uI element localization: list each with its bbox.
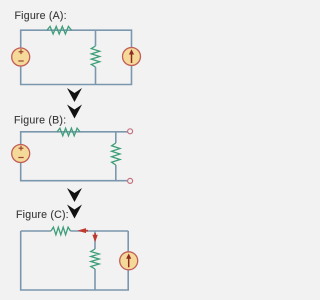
- svg-text:Figure (C):: Figure (C):: [16, 209, 69, 221]
- svg-text:Figure (A):: Figure (A):: [15, 10, 67, 22]
- svg-text:Figure (B):: Figure (B):: [14, 114, 66, 126]
